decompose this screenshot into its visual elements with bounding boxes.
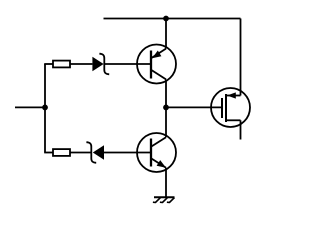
Q2 emitter arrow (NPN, pointing out) (157, 160, 166, 168)
Q2 base bar (150, 139, 152, 167)
wire: Q2 emitter lead down to ground (165, 168, 167, 198)
ground tick 2 (160, 198, 168, 203)
M1 drain horizontal (227, 95, 241, 97)
Q1 emitter arrow (PNP, pointing at base) (152, 51, 161, 59)
node: mid junction dot (163, 105, 169, 111)
mosfet M1 circle (211, 88, 250, 127)
diode D1 cathode S-bar (99, 54, 109, 75)
Q1 base bar (150, 51, 152, 79)
Q1 emitter diagonal (151, 49, 166, 59)
transistor Q1 (PNP) circle (137, 45, 176, 84)
M1 source horizontal (226, 119, 241, 121)
wire: M1 source lead down (240, 120, 242, 139)
node: rail junction dot (163, 16, 169, 22)
wire: left input lead (15, 106, 45, 108)
diode D2 (Schottky, pointing left) anode triangle (93, 145, 104, 159)
wire: Q1 collector down to mid node (165, 79, 167, 107)
wire: mid node to M1 gate (166, 106, 221, 108)
M1 channel bar (225, 94, 227, 122)
wire: D1 cathode to Q1 base (104, 63, 151, 65)
wire: D2 anode to Q2 base (104, 152, 151, 154)
wire: left vertical bus (44, 64, 46, 153)
wire: top rail (104, 18, 241, 20)
wire: R1 to diode D1 anode (70, 63, 92, 65)
resistor R2 (53, 149, 70, 156)
Q1 collector diagonal (151, 70, 166, 80)
diode D2 cathode S-bar (86, 142, 96, 163)
wire: top branch from bus to resistor R1 (44, 63, 53, 65)
resistor R1 (53, 61, 70, 68)
M1 gate bar (221, 98, 223, 118)
ground tick 1 (153, 198, 161, 203)
ground tick 3 (167, 198, 175, 203)
wire: R2 to diode D2 cathode (70, 152, 91, 154)
wire: mid node down to Q2 collector (165, 107, 167, 137)
Q2 emitter diagonal (151, 158, 166, 168)
node: input junction dot (42, 105, 48, 111)
wire: Q1 emitter lead up to rail (165, 19, 167, 49)
M1 arrow (pointing into channel) (227, 92, 236, 98)
ground bar (154, 196, 175, 198)
wire: M1 drain lead up to rail (240, 19, 242, 96)
diode D1 (Schottky, pointing right) anode triangle (92, 57, 103, 71)
transistor Q2 (NPN) circle (137, 133, 176, 172)
Q2 collector diagonal (151, 137, 166, 147)
wire: bottom branch from bus to resistor R2 (44, 152, 53, 154)
